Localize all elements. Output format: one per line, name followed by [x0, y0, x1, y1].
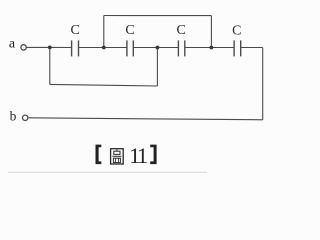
terminal b circle	[23, 115, 28, 120]
svg-text:C: C	[125, 23, 134, 38]
wire node1 to C1	[48, 46, 72, 48]
wire right vertical down to b line	[262, 48, 264, 120]
svg-text:b: b	[10, 109, 17, 124]
capacitor C3 plates	[178, 40, 184, 56]
junction node1	[48, 46, 52, 50]
svg-text:C: C	[232, 23, 241, 38]
wire top bypass horizontal	[104, 15, 212, 17]
svg-text:C: C	[177, 23, 186, 38]
terminal a circle	[21, 45, 26, 50]
wire node3 to C3	[157, 47, 178, 49]
wire bottom bypass horizontal	[50, 84, 158, 86]
junction node4	[210, 46, 214, 50]
wire C4 to right corner	[241, 47, 263, 49]
wire C2 to node3	[133, 47, 157, 49]
svg-text:11: 11	[129, 143, 147, 168]
caption character 圖	[111, 149, 124, 164]
junction node2	[102, 46, 106, 50]
capacitor C4 plates	[234, 40, 241, 56]
svg-text:a: a	[9, 36, 16, 51]
wire node2 to C2	[104, 47, 127, 49]
capacitor C1 plates	[72, 40, 79, 56]
wire bottom bypass: up to node3	[156, 48, 158, 87]
wire node4 to C4	[211, 47, 234, 49]
wire top bypass: node2 up	[103, 16, 105, 48]
capacitor C2 plates	[127, 40, 133, 56]
wire a to node1	[27, 46, 48, 48]
junction node3	[156, 46, 160, 50]
svg-text:C: C	[71, 23, 80, 38]
wire b line	[29, 118, 263, 120]
caption right bracket 】	[150, 145, 156, 165]
wire bottom bypass: node1 down	[49, 47, 51, 84]
wire top bypass: down to node4	[210, 16, 212, 48]
faint rule below caption	[8, 171, 207, 173]
wire C1 to node2	[79, 47, 104, 49]
caption left bracket 【	[96, 145, 102, 165]
wire C3 to node4	[185, 47, 212, 49]
